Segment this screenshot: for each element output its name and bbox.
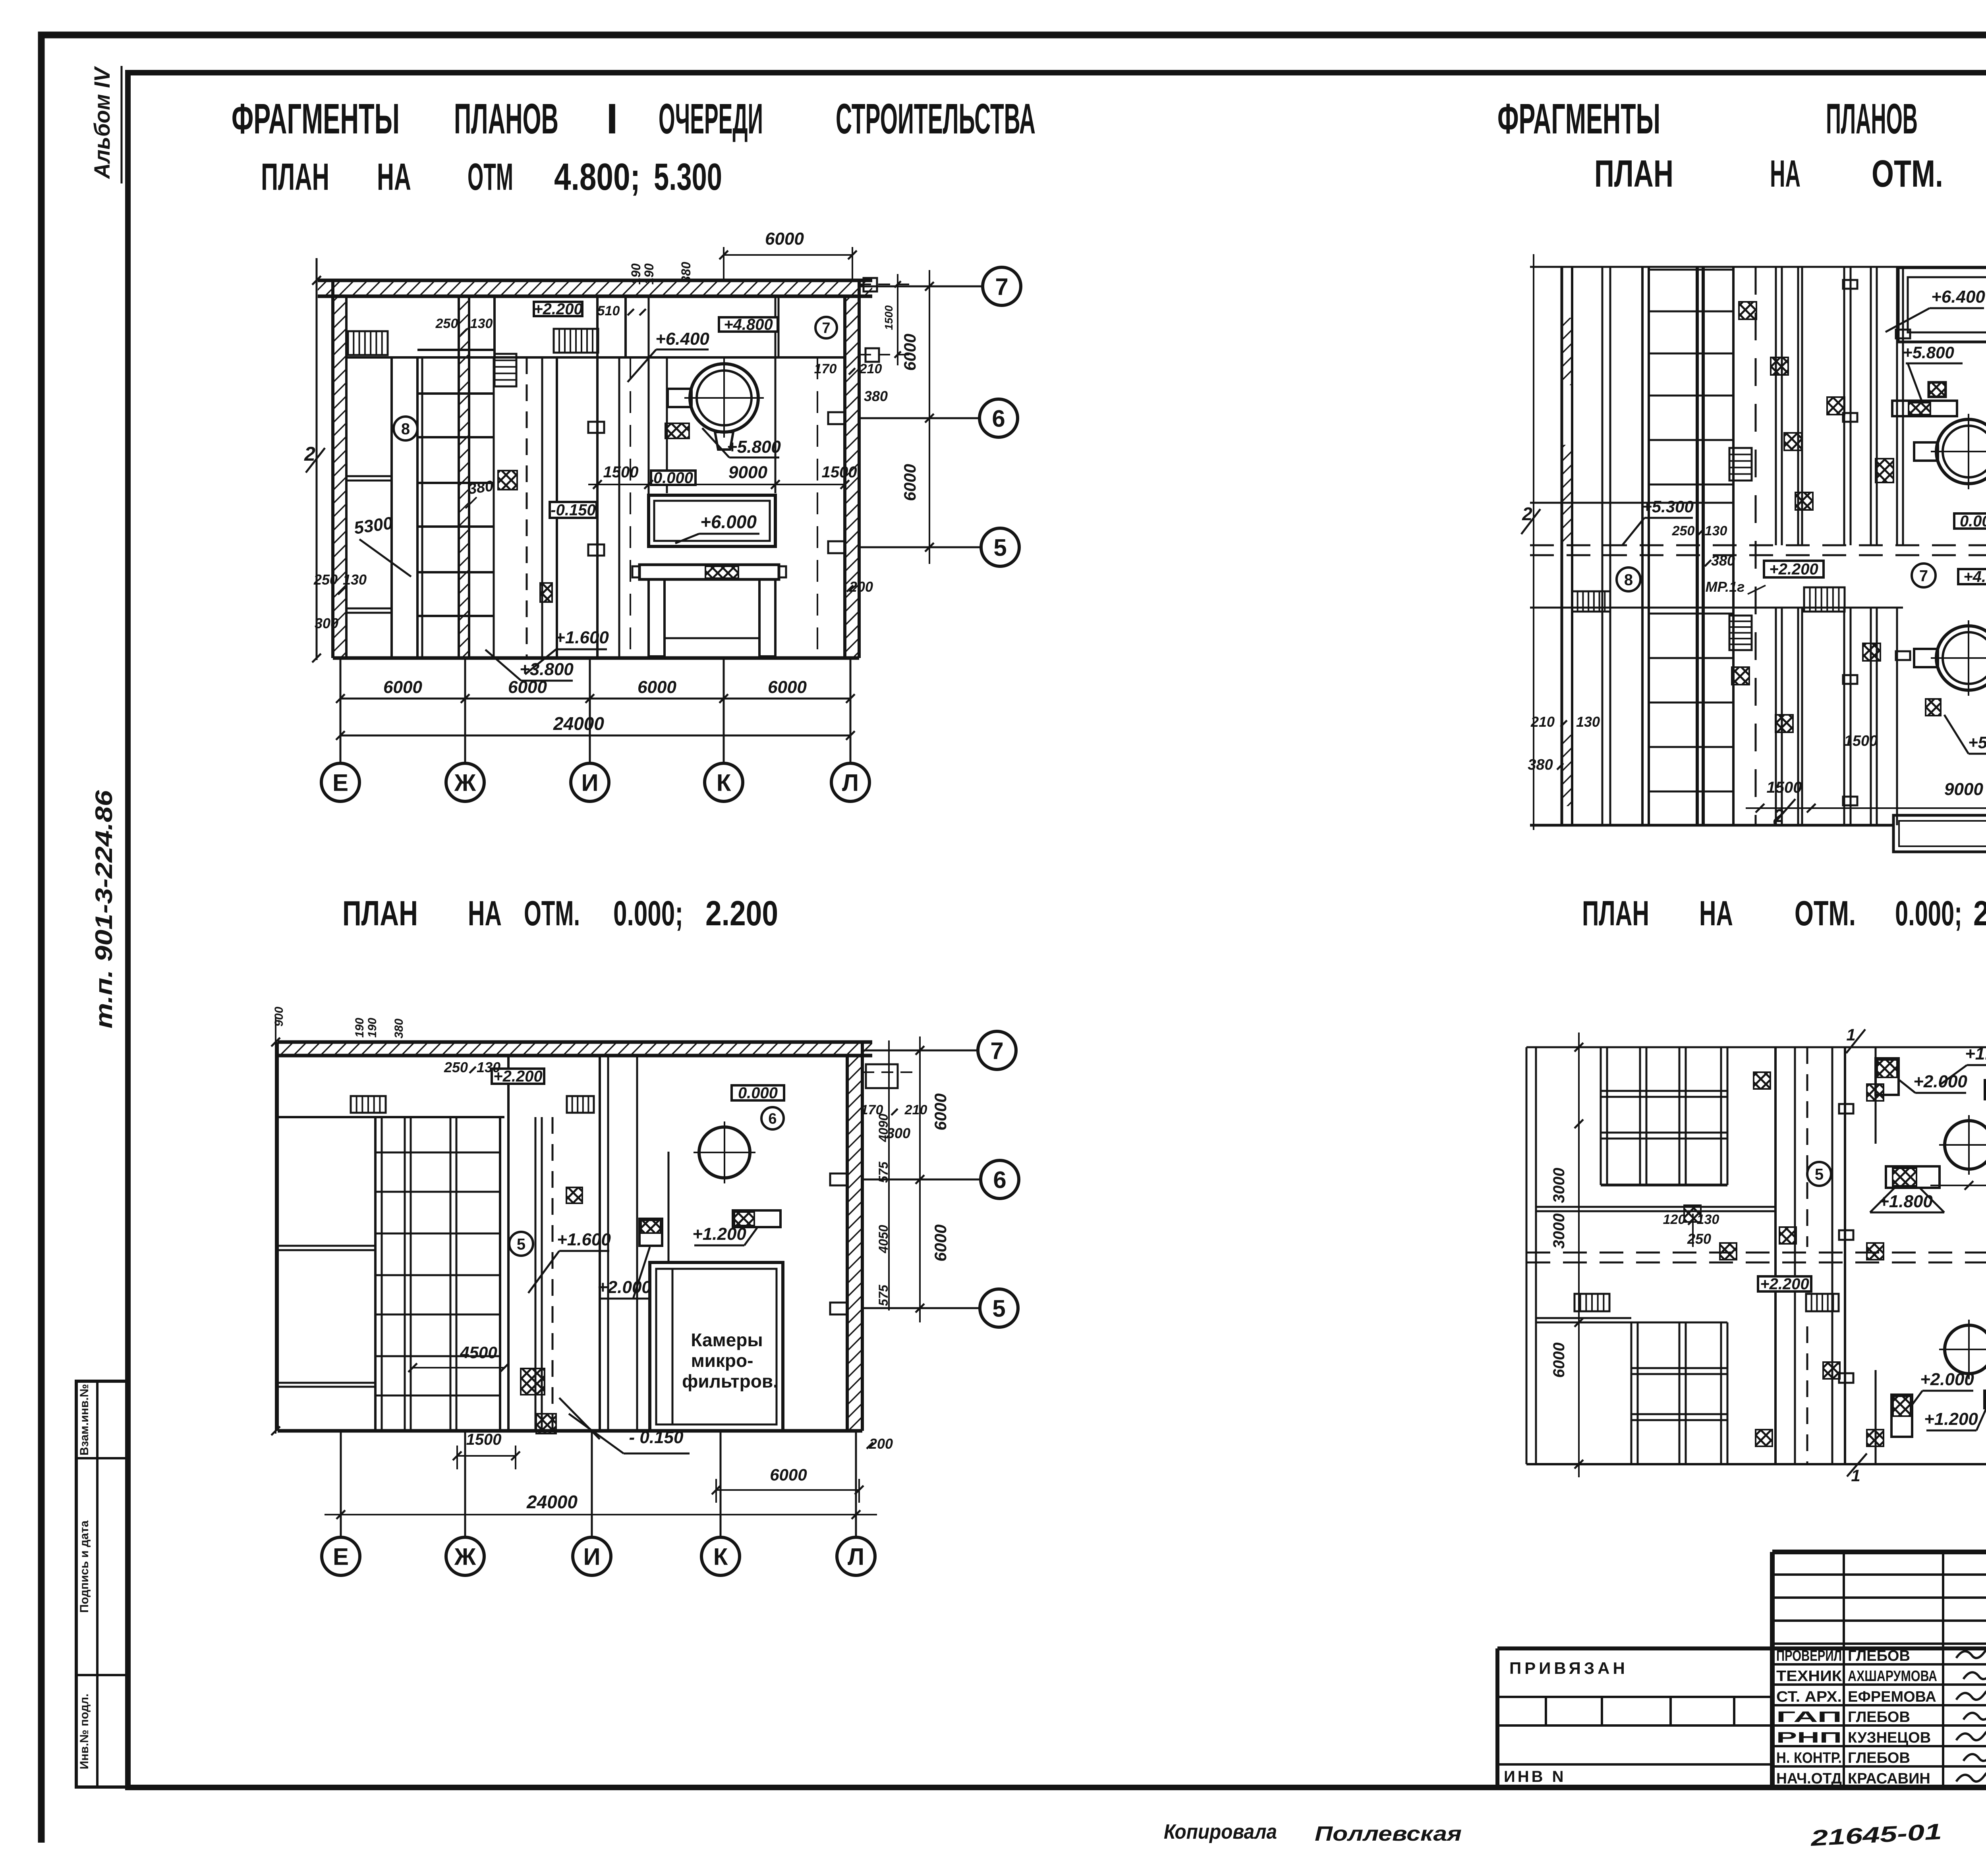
svg-text:7: 7 [1919, 567, 1928, 585]
svg-text:НА: НА [1699, 894, 1733, 933]
bottom line TR left [1530, 824, 1893, 827]
equipment BR a [1876, 1058, 1899, 1095]
pipe stubs TR interior [1843, 280, 1857, 289]
svg-text:- 0.150: - 0.150 [629, 1428, 684, 1447]
svg-text:+1.200: +1.200 [1924, 1409, 1978, 1429]
svg-text:СТ. АРХ.: СТ. АРХ. [1776, 1689, 1842, 1705]
stair TR d [1804, 587, 1845, 612]
column axis lines TL [340, 658, 342, 763]
svg-text:ОТМ: ОТМ [468, 156, 513, 198]
svg-text:5: 5 [517, 1235, 525, 1253]
partition TL chamber wall up [775, 296, 777, 493]
svg-text:190: 190 [629, 263, 643, 285]
axis bubble 6 BL [981, 1160, 1019, 1199]
axis bubble 5 inline BR [1807, 1162, 1831, 1186]
corridor floor TR [1530, 607, 1903, 609]
svg-text:ТЕХНИК: ТЕХНИК [1776, 1668, 1842, 1685]
left edge BL [276, 1042, 279, 1431]
stair TR c [1729, 616, 1752, 650]
elev +2.200 BR [1758, 1276, 1811, 1291]
svg-text:+5.300: +5.300 [1642, 497, 1694, 516]
svg-text:+1.200: +1.200 [1965, 1044, 1986, 1063]
partition TL [390, 357, 393, 658]
svg-text:6000: 6000 [638, 677, 676, 697]
svg-text:210: 210 [1530, 714, 1555, 730]
axis dashed TL c [817, 357, 818, 658]
svg-text:+5.800: +5.800 [727, 437, 781, 457]
dim chain left BL [275, 1017, 276, 1434]
svg-text:6: 6 [992, 405, 1005, 432]
equipment BR mid [1886, 1166, 1940, 1188]
mid partitions BR [1774, 1047, 1777, 1464]
svg-text:6000: 6000 [900, 334, 919, 371]
svg-text:Копировала: Копировала [1164, 1820, 1277, 1843]
svg-text:ПРИВЯЗАН: ПРИВЯЗАН [1509, 1659, 1628, 1677]
svg-text:ПЛАН: ПЛАН [1582, 894, 1649, 933]
axis line 5 TL [859, 546, 981, 548]
elev +2.200 TR [1764, 561, 1824, 577]
axis bubble 7 inline TR [1912, 564, 1936, 587]
hatch patch BL a [521, 1368, 545, 1395]
svg-text:0.000;: 0.000; [1895, 894, 1962, 933]
svg-text:5: 5 [993, 535, 1007, 561]
stair TR a [1572, 591, 1610, 612]
inner wall line BL [278, 1116, 504, 1118]
svg-text:4.800;: 4.800; [554, 156, 640, 198]
axis bubble Л TL [831, 763, 869, 801]
partitions TR left [1602, 267, 1603, 825]
partition TL [416, 357, 419, 658]
svg-text:ПЛАНОВ: ПЛАНОВ [1826, 95, 1918, 143]
sidebar stamp table [76, 1381, 128, 1787]
svg-text:Ж: Ж [454, 1544, 476, 1570]
svg-text:1: 1 [1846, 1025, 1855, 1044]
dim line TR bottom [1746, 807, 1986, 809]
axis bubble Л BL [837, 1537, 875, 1575]
svg-text:170: 170 [814, 361, 837, 376]
hatch patch BL b [536, 1414, 556, 1434]
svg-text:3000: 3000 [1550, 1168, 1568, 1203]
svg-text:130: 130 [1576, 714, 1600, 730]
svg-text:5.300: 5.300 [654, 156, 722, 198]
svg-text:24000: 24000 [526, 1492, 578, 1512]
svg-text:7: 7 [990, 1038, 1003, 1064]
svg-text:АХШАРУМОВА: АХШАРУМОВА [1848, 1668, 1937, 1685]
hatch patch TL near tank [665, 423, 689, 438]
svg-text:Л: Л [842, 770, 859, 796]
svg-text:1500: 1500 [822, 463, 857, 481]
elev 0.000 TL [651, 471, 695, 485]
stub TL d [828, 541, 845, 553]
window grid TR upper [1649, 269, 1733, 271]
tank circle TL [690, 364, 758, 432]
svg-text:6000: 6000 [900, 464, 919, 501]
svg-text:+6.400: +6.400 [1931, 287, 1985, 307]
svg-text:4500: 4500 [460, 1343, 497, 1362]
left column rungs TL [346, 475, 392, 477]
svg-text:9000: 9000 [728, 463, 767, 482]
svg-text:6000: 6000 [931, 1093, 950, 1130]
door detail right-top TL [859, 284, 914, 285]
hatch patch BR [1779, 1227, 1796, 1244]
hatch patch platform TL [705, 566, 738, 578]
hatch patch TR [1863, 643, 1880, 661]
stair TL c [495, 354, 516, 386]
svg-text:120: 120 [1663, 1212, 1686, 1227]
tank circle BL [699, 1127, 750, 1178]
hatch patch TR [1732, 667, 1749, 685]
elev +4.800 TL [719, 317, 778, 332]
svg-text:НАЧ.ОТД: НАЧ.ОТД [1776, 1770, 1842, 1787]
partition TL top band [624, 296, 627, 357]
axis bubble inline BL [761, 1107, 784, 1129]
svg-text:+5.800: +5.800 [1968, 733, 1986, 752]
chamber BL [650, 1262, 783, 1431]
axis line 6 BL [862, 1179, 981, 1181]
svg-text:-0.150: -0.150 [551, 502, 595, 519]
axis bubble 5 TL [981, 528, 1019, 566]
svg-text:6000: 6000 [768, 677, 807, 697]
axis bubble И TL [571, 763, 609, 801]
svg-text:ПРОВЕРИЛ: ПРОВЕРИЛ [1776, 1648, 1842, 1664]
axis bubble Е BL [322, 1537, 360, 1575]
axis line 6 TL [859, 417, 979, 419]
svg-text:380: 380 [392, 1019, 406, 1038]
mid partitions BL [507, 1056, 510, 1431]
axis bubble 5 BL [980, 1289, 1018, 1327]
svg-text:24000: 24000 [553, 713, 604, 734]
lower grid BR [1631, 1322, 1632, 1464]
dim line 24000 TL [340, 735, 850, 737]
left dim line TR [1533, 254, 1534, 830]
svg-text:К: К [713, 1544, 728, 1570]
wall bottom BL [278, 1429, 862, 1433]
tank circle lower TR [1936, 626, 1986, 690]
svg-text:6000: 6000 [1550, 1343, 1568, 1378]
svg-text:ПЛАН: ПЛАН [261, 156, 329, 198]
window grid TR lower [1649, 613, 1733, 615]
hatch patch TR [1827, 397, 1845, 415]
equipment BR c [1891, 1395, 1912, 1437]
hatch patch TL low [540, 583, 552, 602]
svg-text:250: 250 [1672, 523, 1695, 538]
svg-text:+2.000: +2.000 [1913, 1072, 1967, 1091]
svg-text:8: 8 [401, 420, 410, 438]
svg-text:190: 190 [353, 1018, 366, 1038]
svg-text:Инв.№ подл.: Инв.№ подл. [78, 1694, 91, 1770]
partition TL [596, 296, 599, 658]
svg-text:130: 130 [477, 1059, 500, 1075]
svg-text:ГЛЕБОВ: ГЛЕБОВ [1848, 1750, 1910, 1766]
svg-text:И: И [581, 770, 598, 796]
svg-text:6000: 6000 [765, 229, 804, 249]
svg-text:3000: 3000 [1550, 1214, 1568, 1249]
chamber TL [649, 495, 775, 546]
svg-text:250: 250 [435, 316, 458, 331]
svg-text:НА: НА [1770, 152, 1801, 195]
left bands BL [278, 1245, 375, 1247]
svg-text:НА: НА [377, 156, 411, 198]
dim line TL mid [588, 484, 845, 485]
stair BR b [1806, 1294, 1839, 1311]
svg-text:Взам.инв.№: Взам.инв.№ [78, 1384, 91, 1455]
svg-text:210: 210 [904, 1102, 927, 1117]
hatch patch TR b [1926, 699, 1941, 716]
svg-text:510: 510 [597, 303, 620, 318]
svg-text:+6.000: +6.000 [700, 511, 757, 532]
partition TL [556, 357, 558, 658]
svg-text:ФРАГМЕНТЫ: ФРАГМЕНТЫ [232, 95, 400, 143]
axis dashed TL b [630, 357, 631, 658]
wall bottom TL [333, 656, 859, 660]
svg-text:КРАСАВИН: КРАСАВИН [1848, 1770, 1930, 1787]
svg-text:250: 250 [1687, 1231, 1711, 1247]
hatch patch TR [1771, 357, 1788, 375]
elev 0.000 TR [1954, 513, 1986, 529]
stub BR partition [1839, 1104, 1853, 1114]
dim chain left TL [316, 258, 318, 660]
svg-text:1500: 1500 [1767, 779, 1802, 796]
svg-text:+2.000: +2.000 [597, 1278, 651, 1297]
svg-text:+2.200: +2.200 [493, 1068, 542, 1085]
hatch patch TR [1784, 433, 1802, 450]
svg-text:ОЧЕРЕДИ: ОЧЕРЕДИ [659, 95, 763, 143]
svg-text:190: 190 [642, 263, 656, 285]
svg-text:Л: Л [848, 1544, 864, 1570]
door detail top-right BL [866, 1064, 898, 1088]
partition TL [493, 296, 496, 357]
axis bubble 7 inline TL [815, 317, 837, 338]
equipment BR b [1985, 1080, 1986, 1099]
stage line dashed b BR [1526, 1262, 1986, 1264]
svg-text:0.000: 0.000 [738, 1085, 778, 1102]
svg-text:300: 300 [315, 615, 338, 631]
axis bubble 6 TL [979, 399, 1018, 437]
axis bubble К TL [705, 763, 743, 801]
stage line dashed a BR [1526, 1252, 1986, 1254]
svg-text:0.000: 0.000 [1960, 513, 1986, 530]
axis bubble И BL [573, 1537, 611, 1575]
stair TL a [348, 331, 388, 355]
hatch patch BR [1867, 1243, 1884, 1260]
svg-text:1500: 1500 [883, 305, 895, 330]
svg-text:380: 380 [679, 262, 693, 283]
title block top line [1772, 1550, 1986, 1554]
signatures [1956, 1647, 1986, 1658]
bottom line TR right [1893, 851, 1986, 853]
hatch patch BL c [566, 1187, 582, 1203]
svg-text:Поллевская: Поллевская [1315, 1822, 1462, 1845]
hatch patch TR wall [1876, 459, 1893, 483]
axis dashed TR [1755, 267, 1757, 825]
tank grid TL [417, 349, 495, 351]
svg-text:РНП: РНП [1776, 1729, 1842, 1746]
bottom line BR [1526, 1463, 1986, 1465]
stub BL a [830, 1173, 848, 1185]
svg-text:+4.800: +4.800 [724, 316, 773, 334]
hatch patch BR [1754, 1072, 1770, 1089]
partition TL [541, 357, 543, 658]
column axis lines BL [340, 1431, 342, 1537]
dim chain left BR [1578, 1033, 1580, 1477]
svg-text:6: 6 [993, 1167, 1006, 1193]
svg-text:СТРОИТЕЛЬСТВА: СТРОИТЕЛЬСТВА [836, 95, 1036, 143]
svg-text:380: 380 [467, 478, 495, 498]
svg-text:380: 380 [1711, 552, 1735, 569]
svg-text:Е: Е [333, 1544, 349, 1570]
gallery dashed line b TR [1530, 554, 1986, 556]
axis line 5 BL [862, 1307, 980, 1309]
svg-text:130: 130 [470, 316, 493, 331]
svg-text:ОТМ.: ОТМ. [524, 894, 580, 933]
svg-text:210: 210 [859, 361, 882, 376]
svg-text:Подпись и дата: Подпись и дата [78, 1520, 91, 1613]
left bands BR [1536, 1206, 1775, 1208]
svg-text:микро-: микро- [691, 1350, 753, 1371]
hatch patch TR [1795, 492, 1813, 510]
svg-text:6000: 6000 [931, 1224, 950, 1261]
svg-text:+2.000: +2.000 [1920, 1370, 1974, 1389]
svg-text:+2.200: +2.200 [1769, 561, 1818, 578]
svg-text:2.200: 2.200 [1973, 894, 1986, 933]
equipment BL a [639, 1219, 662, 1246]
svg-text:ФРАГМЕНТЫ: ФРАГМЕНТЫ [1497, 95, 1660, 143]
axis bubble К BL [701, 1537, 740, 1575]
axis dashed BL [552, 1117, 554, 1431]
elev +2.200 BL [492, 1069, 544, 1084]
equipment BL b [733, 1210, 780, 1227]
svg-text:900: 900 [272, 1007, 286, 1027]
dim line 6000s TL [340, 698, 850, 700]
svg-text:380: 380 [864, 388, 888, 404]
svg-text:ПЛАН: ПЛАН [1594, 152, 1673, 195]
svg-text:1500: 1500 [466, 1431, 502, 1448]
elev +4.800 TR [1958, 569, 1986, 584]
svg-text:6000: 6000 [508, 677, 547, 697]
hatch patch BR [1823, 1362, 1840, 1379]
hatch patch BR [1720, 1243, 1737, 1260]
svg-text:+1.600: +1.600 [557, 1230, 611, 1249]
wall top band TL [318, 280, 872, 296]
hatch patch TL mid [498, 471, 517, 490]
axis bubble Е TL [321, 763, 359, 801]
svg-text:+3.800: +3.800 [520, 660, 574, 679]
svg-text:7: 7 [995, 274, 1008, 300]
svg-text:1500: 1500 [1844, 733, 1878, 749]
svg-text:6: 6 [768, 1111, 777, 1127]
tank outlet TL [715, 432, 733, 450]
stair BL a [351, 1096, 386, 1113]
wall top band BL [278, 1042, 872, 1056]
axis bubble 8 inline TL [394, 417, 417, 440]
stub BL b [830, 1303, 848, 1314]
gallery dashed line a TR [1530, 544, 1986, 546]
partition TL [778, 296, 780, 357]
svg-text:6000: 6000 [383, 677, 422, 697]
hatched wall TL mid [459, 296, 469, 658]
wall left TL [333, 296, 346, 658]
tank circle upper TR [1936, 419, 1986, 484]
tank room +6.400 TR [1898, 268, 1986, 342]
elev 0.000 BL [732, 1085, 784, 1100]
svg-text:I: I [606, 95, 618, 143]
wall right TL [845, 296, 859, 658]
dim chain right BL [919, 1036, 921, 1322]
stub TL c [828, 412, 845, 424]
svg-text:380: 380 [1528, 757, 1553, 773]
svg-text:ПЛАН: ПЛАН [342, 894, 418, 933]
svg-text:+6.400: +6.400 [655, 329, 709, 349]
top cut line BR [1526, 1046, 1986, 1048]
svg-text:т.п. 901-3-224.86: т.п. 901-3-224.86 [91, 790, 117, 1029]
stub TL b [588, 544, 604, 556]
svg-text:130: 130 [1705, 523, 1727, 538]
svg-text:+2.200: +2.200 [533, 301, 582, 318]
upper grid BR [1600, 1047, 1602, 1185]
stub TL a [588, 422, 604, 433]
svg-text:5: 5 [992, 1295, 1005, 1322]
stair TR b [1729, 448, 1752, 481]
wall hatched TR [1561, 267, 1563, 825]
axis bubble Ж TL [446, 763, 484, 801]
top cut line TR [1530, 266, 1986, 268]
hatch patch BR [1867, 1430, 1884, 1446]
svg-text:К: К [717, 770, 731, 796]
axis bubble 7 BL [978, 1031, 1016, 1069]
title block left extension [1495, 1648, 1499, 1787]
axis bubble 5 inline BL [509, 1232, 533, 1256]
platform TL [639, 565, 779, 579]
svg-text:ОТМ.: ОТМ. [1795, 894, 1856, 933]
equipment BR d [1984, 1391, 1986, 1408]
svg-text:250: 250 [313, 571, 338, 588]
axis bubble 7 TL [983, 267, 1021, 305]
mixer circle lower BR [1945, 1325, 1986, 1374]
svg-text:7: 7 [822, 320, 830, 337]
hatch patch TR [1775, 715, 1793, 732]
svg-text:И: И [583, 1544, 600, 1570]
svg-text:2.200: 2.200 [705, 894, 778, 933]
svg-text:130: 130 [1697, 1212, 1719, 1227]
svg-text:+1.600: +1.600 [555, 628, 609, 647]
svg-text:250: 250 [444, 1059, 468, 1075]
partition TL extra [666, 357, 668, 493]
shelf band TR [1892, 401, 1957, 416]
svg-text:ЕФРЕМОВА: ЕФРЕМОВА [1848, 1689, 1936, 1705]
staff table [1772, 1573, 1986, 1576]
elev +2.200 TL [534, 302, 582, 316]
stair TL b [554, 329, 598, 353]
hatch patch BR [1684, 1205, 1701, 1222]
stair BL b [567, 1096, 594, 1113]
svg-text:МР.1г: МР.1г [1706, 579, 1745, 595]
hatch patch BR [1867, 1084, 1884, 1101]
svg-text:+2.200: +2.200 [1760, 1276, 1809, 1293]
svg-text:Н. КОНТР.: Н. КОНТР. [1776, 1750, 1842, 1766]
svg-text:Камеры: Камеры [691, 1330, 763, 1350]
svg-text:5: 5 [1815, 1166, 1824, 1183]
dim chain right TL [929, 270, 930, 564]
stub BR partition [1839, 1373, 1853, 1383]
svg-text:ГАП: ГАП [1776, 1709, 1842, 1725]
svg-text:НА: НА [468, 894, 502, 933]
svg-text:9000: 9000 [1944, 780, 1983, 799]
svg-text:фильтров.: фильтров. [682, 1371, 778, 1392]
svg-text:0.000;: 0.000; [613, 894, 683, 933]
inner wall line TL [346, 356, 845, 359]
hatch patch BR [1756, 1430, 1772, 1446]
corridor top TR [1530, 502, 1733, 504]
